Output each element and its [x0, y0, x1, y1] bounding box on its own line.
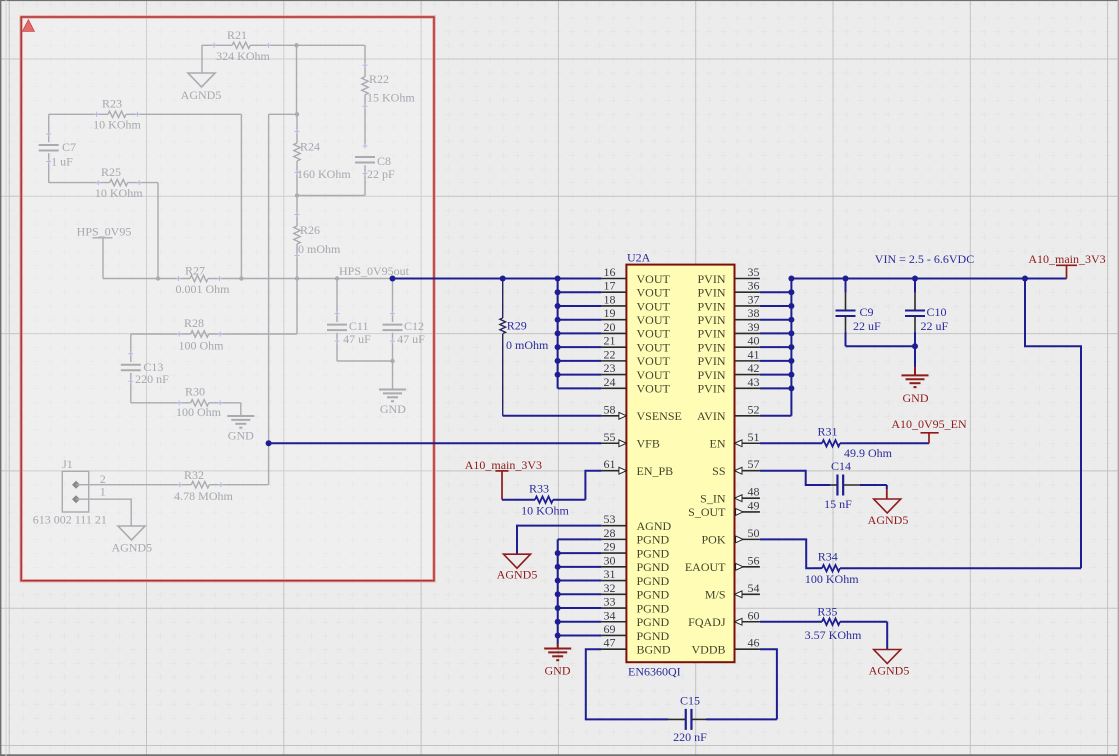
svg-text:21: 21 [604, 334, 616, 348]
svg-text:3.57 KOhm: 3.57 KOhm [805, 628, 862, 642]
svg-text:PGND: PGND [637, 601, 670, 615]
svg-text:160 KOhm: 160 KOhm [297, 167, 351, 181]
wire R32 row [89, 484, 269, 486]
svg-text:C8: C8 [377, 154, 391, 168]
svg-text:R33: R33 [529, 482, 549, 496]
svg-text:PVIN: PVIN [697, 299, 725, 313]
svg-text:GND: GND [380, 402, 406, 416]
wire VOUT bus [558, 279, 602, 389]
svg-text:61: 61 [604, 457, 616, 471]
svg-text:GND: GND [903, 391, 929, 405]
svg-text:PVIN: PVIN [697, 327, 725, 341]
svg-text:17: 17 [604, 279, 616, 293]
resistor R28 [177, 316, 224, 353]
ground GND dimmed R30 [227, 416, 254, 443]
svg-text:AGND: AGND [637, 519, 672, 533]
junction dots PVIN bus [788, 276, 794, 392]
svg-text:32: 32 [604, 581, 616, 595]
svg-text:R29: R29 [507, 319, 527, 333]
svg-text:AVIN: AVIN [697, 409, 726, 423]
resistor R24 [294, 114, 352, 195]
svg-text:VOUT: VOUT [637, 368, 671, 382]
svg-text:C11: C11 [349, 319, 369, 333]
svg-text:PVIN: PVIN [697, 286, 725, 300]
wire to AGND5 [201, 45, 203, 73]
svg-text:C14: C14 [831, 459, 851, 473]
junction dots VIN rail [843, 276, 1029, 282]
svg-text:42: 42 [748, 361, 760, 375]
wire BGND to C15 [586, 649, 686, 719]
resistor R27 [176, 264, 231, 297]
svg-text:FQADJ: FQADJ [688, 615, 726, 629]
svg-text:GND: GND [545, 664, 571, 678]
svg-text:46: 46 [748, 636, 760, 650]
svg-text:PGND: PGND [637, 533, 670, 547]
svg-text:100 Ohm: 100 Ohm [176, 405, 222, 419]
svg-text:C15: C15 [680, 694, 700, 708]
svg-text:M/S: M/S [705, 588, 726, 602]
svg-text:VOUT: VOUT [637, 286, 671, 300]
svg-text:PVIN: PVIN [697, 382, 725, 396]
svg-text:41: 41 [748, 347, 760, 361]
svg-text:VOUT: VOUT [637, 340, 671, 354]
svg-text:54: 54 [748, 581, 760, 595]
node C12 tap [390, 276, 396, 282]
svg-text:69: 69 [604, 622, 616, 636]
svg-text:33: 33 [604, 595, 616, 609]
net label HPS_0V95out [339, 264, 410, 278]
wire R24 top link [269, 43, 300, 116]
svg-text:58: 58 [604, 402, 616, 416]
text U2A designator [627, 251, 651, 265]
ground AGND5 pin53 [497, 554, 538, 581]
svg-text:A10_main_3V3: A10_main_3V3 [465, 458, 542, 472]
svg-text:49: 49 [748, 498, 760, 512]
wire R30 row [131, 403, 241, 416]
svg-text:10 KOhm: 10 KOhm [95, 186, 143, 200]
svg-text:PGND: PGND [637, 588, 670, 602]
svg-text:PVIN: PVIN [697, 313, 725, 327]
svg-text:U2A: U2A [627, 251, 651, 265]
junction dots VOUT bus [555, 276, 561, 378]
resistor R35 [760, 605, 887, 650]
svg-text:R31: R31 [817, 425, 837, 439]
svg-text:VFB: VFB [637, 437, 660, 451]
svg-text:EAOUT: EAOUT [685, 560, 726, 574]
svg-text:47: 47 [604, 636, 616, 650]
svg-text:PVIN: PVIN [697, 354, 725, 368]
text VIN spec [875, 252, 974, 266]
svg-text:22 uF: 22 uF [853, 319, 881, 333]
svg-text:PGND: PGND [637, 560, 670, 574]
svg-text:EN: EN [710, 437, 726, 451]
wire 3V3 branch to R34 [1025, 279, 1081, 569]
svg-text:37: 37 [748, 292, 760, 306]
svg-text:56: 56 [748, 553, 760, 567]
svg-text:R22: R22 [369, 72, 389, 86]
svg-text:BGND: BGND [637, 643, 671, 657]
svg-text:A10_main_3V3: A10_main_3V3 [1028, 252, 1105, 266]
svg-text:1 uF: 1 uF [51, 155, 73, 169]
wire R21 row [202, 44, 365, 46]
wire PVIN bus [760, 279, 792, 416]
svg-text:R30: R30 [185, 385, 205, 399]
capacitor C10 [905, 279, 949, 367]
svg-text:31: 31 [604, 567, 616, 581]
svg-text:R35: R35 [817, 605, 837, 619]
svg-text:220 nF: 220 nF [673, 730, 707, 744]
svg-text:38: 38 [748, 306, 760, 320]
capacitor C7 [39, 114, 76, 182]
wire J1 pin1 to ground [89, 499, 132, 526]
resistor R32 [174, 468, 233, 503]
svg-text:VOUT: VOUT [637, 299, 671, 313]
svg-text:HPS_0V95out: HPS_0V95out [339, 264, 410, 278]
svg-text:S_OUT: S_OUT [688, 505, 726, 519]
svg-text:C10: C10 [927, 305, 947, 319]
capacitor C15 [673, 694, 777, 745]
wire R25 row [49, 183, 158, 279]
svg-text:C9: C9 [860, 305, 874, 319]
ground AGND5 dimmed J1 [111, 526, 152, 555]
wire HPS_0V95out to VOUT bus [393, 278, 601, 280]
svg-text:VOUT: VOUT [637, 327, 671, 341]
wire VSENSE [503, 415, 602, 417]
svg-text:57: 57 [748, 457, 760, 471]
connector J1 [62, 457, 106, 512]
svg-text:24: 24 [604, 375, 616, 389]
svg-text:15 KOhm: 15 KOhm [367, 91, 415, 105]
svg-text:R34: R34 [818, 550, 838, 564]
capacitor C14 [824, 459, 887, 511]
svg-text:R25: R25 [101, 165, 121, 179]
svg-text:PVIN: PVIN [697, 340, 725, 354]
svg-text:VOUT: VOUT [637, 382, 671, 396]
svg-text:39: 39 [748, 320, 760, 334]
svg-text:R24: R24 [300, 140, 320, 154]
wire POK to R34 [760, 539, 813, 568]
resistor R30 [176, 385, 223, 420]
svg-text:J1: J1 [62, 457, 73, 471]
wire PGND bus [558, 539, 602, 644]
wire VIN rail [791, 278, 1066, 280]
svg-text:4.78 MOhm: 4.78 MOhm [174, 489, 233, 503]
resistor R22 [362, 45, 416, 145]
wire R23 row [49, 114, 242, 278]
svg-text:220 nF: 220 nF [135, 372, 169, 386]
wire SS to C14 [760, 471, 838, 485]
capacitor C13 [121, 334, 169, 403]
svg-text:VSENSE: VSENSE [637, 409, 682, 423]
svg-text:52: 52 [748, 402, 760, 416]
capacitor C8 [297, 144, 395, 196]
svg-text:R28: R28 [184, 316, 204, 330]
svg-text:PGND: PGND [637, 574, 670, 588]
svg-text:PGND: PGND [637, 615, 670, 629]
wire HPS_0V95out row dimmed [103, 278, 393, 280]
svg-text:R23: R23 [102, 97, 122, 111]
resistor R26 [294, 196, 341, 335]
svg-text:47 uF: 47 uF [397, 332, 425, 346]
pin direction arrows [619, 412, 743, 625]
svg-text:60: 60 [748, 608, 760, 622]
ground GND dimmed C12 [379, 390, 406, 417]
wire VFB [266, 440, 602, 446]
svg-text:1: 1 [100, 485, 106, 499]
svg-text:55: 55 [604, 430, 616, 444]
resistor R33 [502, 471, 601, 518]
svg-text:47 uF: 47 uF [343, 332, 371, 346]
svg-text:0.001 Ohm: 0.001 Ohm [176, 282, 231, 296]
svg-text:324 KOhm: 324 KOhm [216, 49, 270, 63]
svg-text:35: 35 [748, 265, 760, 279]
node C9 C10 join [912, 343, 918, 349]
text J1 part number [33, 512, 107, 526]
junction dots PGND bus [555, 550, 561, 638]
svg-text:VIN = 2.5 - 6.6VDC: VIN = 2.5 - 6.6VDC [875, 252, 974, 266]
ground AGND5 dimmed top [181, 73, 222, 102]
pin stubs U2A [601, 279, 760, 650]
svg-text:PGND: PGND [637, 546, 670, 560]
svg-text:40: 40 [748, 334, 760, 348]
svg-text:VOUT: VOUT [637, 313, 671, 327]
wire AGND to AGND5 [517, 526, 601, 555]
ground AGND5 C14 [868, 499, 909, 527]
capacitor C12 [383, 279, 426, 390]
svg-text:R27: R27 [185, 264, 205, 278]
text EN6360QI part [628, 665, 681, 679]
resistor R23 [93, 97, 141, 132]
svg-text:GND: GND [228, 429, 254, 443]
svg-text:R32: R32 [184, 468, 204, 482]
resistor R25 [95, 165, 143, 200]
svg-text:19: 19 [604, 306, 616, 320]
svg-text:EN6360QI: EN6360QI [628, 665, 681, 679]
svg-text:0 mOhm: 0 mOhm [298, 242, 341, 256]
svg-text:34: 34 [604, 608, 616, 622]
ground GND pin69 [544, 644, 571, 678]
resistor R31 [760, 425, 929, 460]
svg-text:C12: C12 [404, 319, 424, 333]
svg-text:20: 20 [604, 320, 616, 334]
svg-text:48: 48 [748, 485, 760, 499]
svg-text:POK: POK [701, 533, 725, 547]
wire VDDB [760, 649, 777, 719]
svg-text:PVIN: PVIN [697, 272, 725, 286]
svg-text:PVIN: PVIN [697, 368, 725, 382]
svg-text:AGND5: AGND5 [111, 541, 152, 555]
svg-text:AGND5: AGND5 [497, 567, 538, 581]
svg-text:36: 36 [748, 279, 760, 293]
svg-text:10 KOhm: 10 KOhm [93, 118, 141, 132]
svg-text:22 uF: 22 uF [921, 319, 949, 333]
svg-text:30: 30 [604, 553, 616, 567]
svg-text:A10_0V95_EN: A10_0V95_EN [891, 417, 967, 431]
svg-text:HPS_0V95: HPS_0V95 [77, 224, 132, 238]
svg-text:10 KOhm: 10 KOhm [521, 504, 569, 518]
svg-text:23: 23 [604, 361, 616, 375]
svg-text:AGND5: AGND5 [869, 664, 910, 678]
power port A10_0V95_EN [891, 417, 967, 443]
svg-text:29: 29 [604, 540, 616, 554]
power port A10_main_3V3 left [465, 458, 542, 500]
resistor R34 [805, 550, 1081, 586]
svg-text:50: 50 [748, 526, 760, 540]
svg-text:AGND5: AGND5 [868, 513, 909, 527]
svg-text:SS: SS [712, 464, 725, 478]
svg-text:100 KOhm: 100 KOhm [805, 572, 859, 586]
svg-text:EN_PB: EN_PB [637, 464, 674, 478]
svg-text:53: 53 [604, 512, 616, 526]
svg-text:613 002 111 21: 613 002 111 21 [33, 512, 107, 526]
node R29 top [500, 276, 506, 282]
power port A10_main_3V3 right [1028, 252, 1105, 279]
capacitor C11 [327, 279, 393, 362]
junction dots dimmed [156, 193, 395, 363]
ground AGND5 R35 [869, 650, 910, 678]
resistor R21 [212, 28, 272, 63]
svg-text:S_IN: S_IN [700, 491, 726, 505]
svg-text:VOUT: VOUT [637, 354, 671, 368]
svg-text:PGND: PGND [637, 629, 670, 643]
pin names U2A [637, 272, 727, 657]
ground GND C10 [902, 367, 929, 406]
op-amp U2A body [626, 265, 734, 663]
red corner triangle marker [22, 20, 34, 32]
svg-text:R26: R26 [300, 223, 320, 237]
svg-text:51: 51 [748, 430, 760, 444]
red selection rectangle [21, 17, 434, 581]
pin numbers U2A [604, 265, 760, 650]
svg-text:22 pF: 22 pF [367, 167, 395, 181]
power port HPS_0V95 [77, 224, 132, 278]
dim overlay of selection region [21, 17, 434, 581]
svg-text:R21: R21 [227, 28, 247, 42]
svg-text:49.9 Ohm: 49.9 Ohm [844, 446, 893, 460]
resistor R29 [500, 279, 549, 416]
svg-text:28: 28 [604, 526, 616, 540]
svg-text:16: 16 [604, 265, 616, 279]
capacitor C9 [836, 279, 916, 347]
svg-text:43: 43 [748, 375, 760, 389]
svg-text:100 Ohm: 100 Ohm [179, 339, 225, 353]
svg-text:VOUT: VOUT [637, 272, 671, 286]
svg-text:18: 18 [604, 292, 616, 306]
svg-text:AGND5: AGND5 [181, 88, 222, 102]
svg-text:0 mOhm: 0 mOhm [506, 338, 549, 352]
wire R28 row [131, 333, 297, 335]
svg-text:22: 22 [604, 347, 616, 361]
wire feedback vertical [268, 114, 270, 484]
svg-text:VDDB: VDDB [691, 643, 725, 657]
svg-text:C7: C7 [62, 140, 76, 154]
svg-text:15 nF: 15 nF [824, 497, 852, 511]
